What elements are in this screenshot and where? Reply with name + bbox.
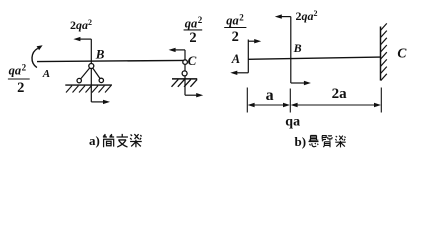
svg-text:A: A: [42, 68, 50, 80]
couple qa^2/2 at A (beam b): vertical bar: [247, 40, 249, 73]
couple at A: bottom arm arrow (left): [235, 72, 248, 74]
svg-text:2: 2: [17, 80, 24, 96]
caption char 支: [117, 134, 128, 147]
beam a (A to C): [37, 60, 185, 61]
dimension line 2a (B-C): [295, 104, 376, 106]
svg-text:2a: 2a: [332, 86, 348, 102]
couple qa^2/2 at C: top arm arrow (left): [174, 49, 186, 51]
pin support at B: apex hinge circle: [89, 64, 94, 69]
ground hatching at B: [66, 86, 111, 93]
roller circle at C: [182, 71, 187, 76]
caption char 臂: [322, 135, 332, 147]
wall hatching at C: [381, 23, 387, 80]
svg-text:A: A: [231, 52, 240, 66]
couple at B: bottom arm arrow (right): [291, 82, 306, 84]
svg-text:C: C: [188, 53, 197, 68]
svg-text:2: 2: [189, 30, 196, 46]
ground hatching at C: [172, 79, 198, 86]
label qa^2/2 fraction at A (beam b): [224, 12, 246, 45]
hinge circle at C on beam: [183, 60, 188, 65]
caption char 梁 (b): [335, 136, 345, 148]
fixed wall line at C (beam b): [380, 27, 382, 81]
svg-text:qa: qa: [285, 114, 300, 129]
couple qa^2/2 at C: vertical bar: [184, 50, 186, 95]
svg-text:2: 2: [239, 12, 244, 22]
svg-text:2qa2: 2qa2: [296, 9, 318, 23]
svg-text:C: C: [397, 46, 407, 61]
couple qa^2/2 at C: bottom arm arrow (right): [185, 94, 198, 96]
label qa^2/2 fraction at A (beam a): [8, 62, 30, 96]
couple 2qa^2 at B (beam b): vertical bar: [290, 17, 292, 83]
arrowhead of moment arc at A: [37, 45, 43, 50]
ground line at C: [172, 78, 197, 80]
svg-text:2qa2: 2qa2: [70, 18, 92, 32]
moment arc at A (couple qa^2/2, beam a): [32, 48, 38, 67]
svg-text:a): a): [89, 133, 100, 148]
svg-text:qa: qa: [226, 14, 239, 28]
couple at A: top arm arrow (right): [248, 40, 256, 42]
beam b (A to wall C): [248, 57, 380, 59]
svg-text:2: 2: [232, 29, 239, 45]
caption char 悬: [309, 135, 319, 146]
svg-text:B: B: [95, 47, 105, 62]
couple at B: top arm arrow (left): [280, 16, 291, 18]
label qa^2/2 fraction at C (beam a): [184, 15, 203, 46]
dimension extension tick at B: [289, 89, 291, 113]
dimension extension tick at C: [380, 88, 382, 113]
pin support at B: right roller circle: [99, 78, 103, 82]
couple 2qa^2 at B: bottom arm arrow (right): [91, 101, 105, 103]
caption char 简: [103, 134, 114, 147]
ground line at B: [65, 84, 112, 86]
svg-text:a: a: [266, 87, 274, 104]
dimension extension tick at A: [246, 88, 248, 113]
svg-text:B: B: [293, 41, 302, 55]
pin support at B: left roller circle: [77, 78, 81, 82]
svg-text:b): b): [295, 134, 307, 149]
svg-text:2: 2: [22, 62, 27, 72]
dimension line a (A-B): [252, 104, 286, 106]
caption char 梁: [130, 134, 142, 147]
svg-text:2: 2: [198, 15, 203, 25]
couple 2qa^2 at B: top arm arrow (left): [79, 38, 92, 40]
pin support at B: legs: [79, 66, 91, 81]
svg-text:qa: qa: [185, 16, 198, 30]
couple 2qa^2 at B: vertical bar: [90, 39, 92, 102]
svg-text:qa: qa: [9, 64, 22, 78]
